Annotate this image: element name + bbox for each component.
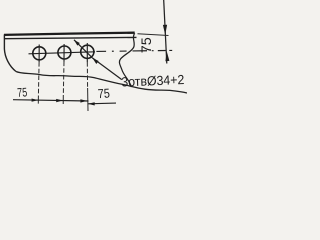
leader line upper segment (through hole O3 to plate edge) [74,40,92,58]
plate top edge (thick visible line) [4,33,135,35]
leader line lower segment (to note text) [92,58,122,80]
hole O2 circle [58,46,71,59]
vertical dimension line at right [164,0,167,64]
hole O2 extension line [62,62,65,97]
plate left edge [4,35,16,72]
svg-text:75: 75 [17,85,28,100]
arrowhead pointing left at x=88 [88,102,95,105]
top edge extension line [138,34,169,36]
leader arrowhead at hole O3 edge [92,58,98,64]
hole O1 circle [33,47,46,60]
plate second edge line [4,37,137,38]
arrowhead at x=38 [32,99,39,102]
dimension line bottom (chain of 75s) [13,100,89,101]
svg-text:3отвØ34+2: 3отвØ34+2 [121,72,185,90]
arrowhead at x=87 [80,99,87,102]
leader arrowhead at plate edge [74,40,80,46]
svg-text:75: 75 [139,37,154,53]
dimension line right stub [88,102,116,105]
svg-text:75: 75 [97,85,110,101]
arrowhead pointing down at plate edge [163,25,167,35]
hole O3 circle [81,45,94,58]
hole O2 vertical centerline [63,44,65,62]
hole O3 extension line [86,62,88,88]
hole O3 vertical centerline [86,43,88,62]
hole O1 extension line (dashed, down to dimension line) [37,62,40,96]
arrowhead pointing up at centerline [165,51,169,61]
hole O1 vertical centerline [38,45,40,63]
arrowhead at x=63 [56,99,63,102]
paper background [0,0,187,111]
bottom break line (wavy) [16,72,187,94]
right break line (wavy) [119,33,134,87]
horizontal centerline (dash-dot through holes) [29,52,96,54]
